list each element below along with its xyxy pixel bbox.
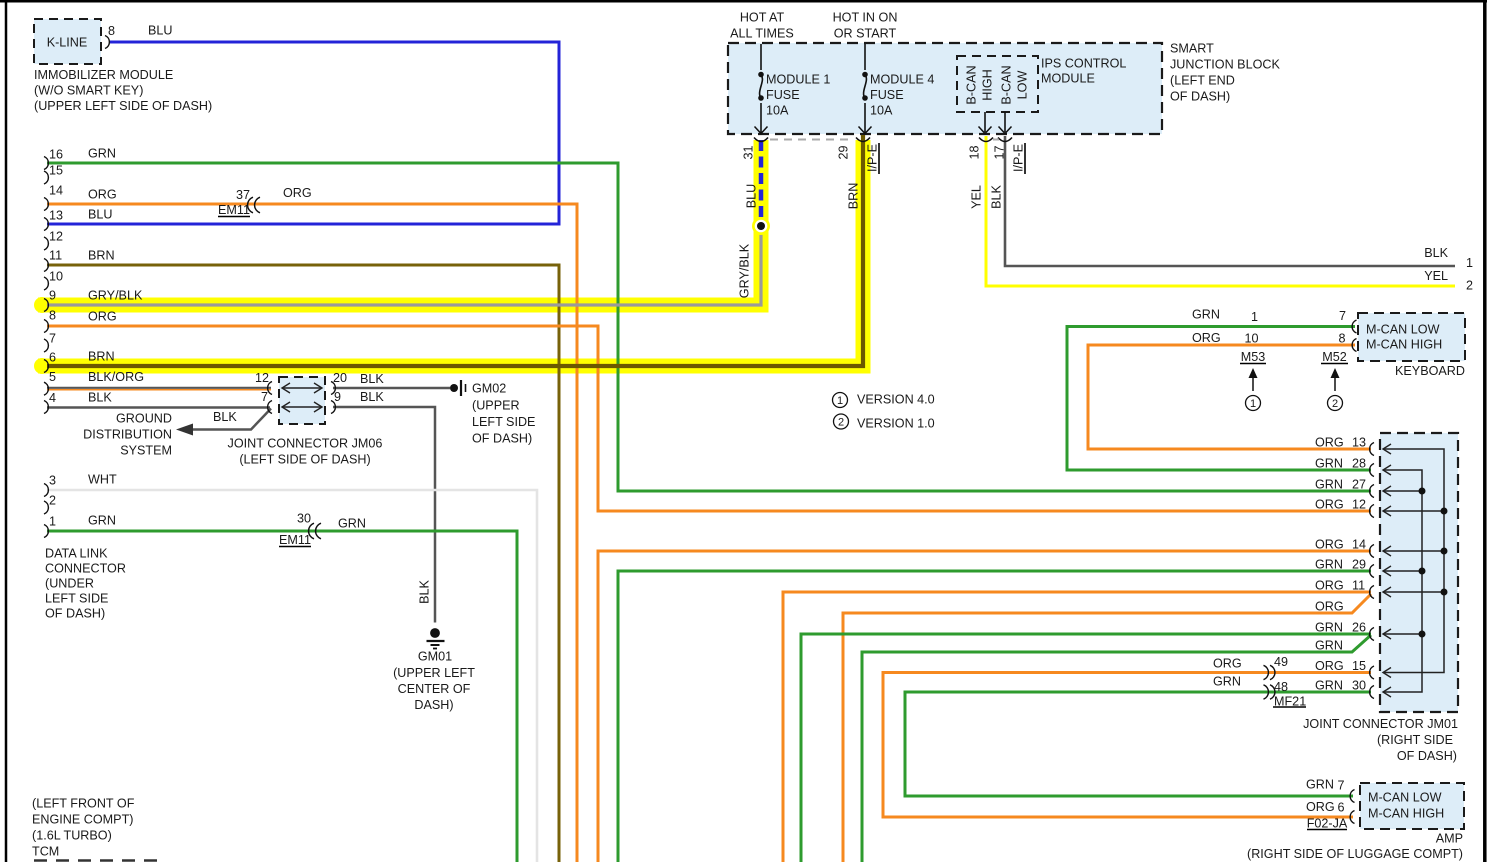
svg-text:31: 31 [741,145,755,159]
svg-text:(RIGHT SIDE: (RIGHT SIDE [1377,733,1453,747]
svg-text:M-CAN LOW: M-CAN LOW [1366,322,1440,336]
svg-text:GRN: GRN [88,513,116,527]
svg-text:FUSE: FUSE [870,88,904,102]
svg-text:I/P-E: I/P-E [1011,144,1025,172]
svg-text:11: 11 [49,248,62,262]
svg-text:12: 12 [49,229,63,243]
svg-text:6: 6 [1337,800,1344,814]
svg-text:IPS CONTROL: IPS CONTROL [1041,56,1126,70]
svg-text:BLU: BLU [148,23,173,37]
svg-text:BRN: BRN [846,183,860,210]
svg-text:K-LINE: K-LINE [47,35,88,49]
svg-text:KEYBOARD: KEYBOARD [1395,364,1465,378]
svg-text:GRN: GRN [1315,620,1343,634]
svg-text:DISTRIBUTION: DISTRIBUTION [83,427,172,441]
svg-text:(UNDER: (UNDER [45,576,94,590]
svg-text:OR START: OR START [834,26,897,40]
svg-text:BLK: BLK [1424,246,1448,260]
svg-text:(W/O SMART KEY): (W/O SMART KEY) [34,83,143,97]
svg-text:7: 7 [49,331,56,345]
svg-text:AMP: AMP [1436,831,1463,845]
svg-text:6: 6 [49,350,56,364]
svg-text:ENGINE COMPT): ENGINE COMPT) [32,812,133,826]
svg-text:ORG: ORG [1192,331,1221,345]
svg-text:OF DASH): OF DASH) [1397,749,1457,763]
svg-text:9: 9 [334,390,341,404]
svg-text:M-CAN LOW: M-CAN LOW [1368,790,1442,804]
svg-text:GRN: GRN [1315,456,1343,470]
svg-text:2: 2 [1466,278,1473,292]
svg-text:20: 20 [333,371,347,385]
svg-text:GRN: GRN [1315,557,1343,571]
svg-text:2: 2 [838,416,844,428]
svg-text:HOT AT: HOT AT [740,10,785,24]
svg-text:8: 8 [49,308,56,322]
svg-text:(LEFT END: (LEFT END [1170,73,1235,87]
svg-text:10A: 10A [766,103,789,117]
svg-text:GRN: GRN [338,516,366,530]
svg-text:12: 12 [255,371,269,385]
svg-text:7: 7 [1337,778,1344,792]
svg-text:ORG: ORG [283,186,312,200]
svg-text:15: 15 [1352,659,1366,673]
svg-text:M-CAN HIGH: M-CAN HIGH [1366,337,1442,351]
svg-text:ALL TIMES: ALL TIMES [730,26,794,40]
svg-text:ORG: ORG [1315,599,1344,613]
svg-text:MODULE 1: MODULE 1 [766,72,830,86]
svg-text:EM11: EM11 [279,533,311,547]
svg-text:ORG: ORG [1315,497,1344,511]
svg-text:FUSE: FUSE [766,88,800,102]
svg-text:DASH): DASH) [414,698,453,712]
svg-text:EM11: EM11 [218,203,250,217]
svg-text:CONNECTOR: CONNECTOR [45,561,126,575]
svg-text:JOINT CONNECTOR JM01: JOINT CONNECTOR JM01 [1303,717,1458,731]
svg-text:14: 14 [1352,537,1366,551]
svg-text:WHT: WHT [88,472,117,486]
svg-text:BLK: BLK [360,390,384,404]
svg-text:BLK: BLK [360,372,384,386]
svg-text:3: 3 [49,473,56,487]
svg-text:8: 8 [108,24,115,38]
svg-text:LOW: LOW [1015,71,1029,100]
svg-text:ORG: ORG [1315,659,1344,673]
svg-text:16: 16 [49,147,63,161]
svg-text:1: 1 [1250,398,1256,410]
svg-text:BRN: BRN [88,349,115,363]
svg-text:GRN: GRN [88,146,116,160]
svg-text:10: 10 [49,269,63,283]
svg-text:GRN: GRN [1306,777,1334,791]
svg-text:15: 15 [49,163,63,177]
svg-text:LEFT SIDE: LEFT SIDE [472,415,535,429]
svg-text:M52: M52 [1322,350,1347,364]
svg-text:GRN: GRN [1315,678,1343,692]
svg-text:VERSION 1.0: VERSION 1.0 [857,416,935,430]
svg-text:8: 8 [1338,331,1345,345]
svg-text:GRN: GRN [1315,638,1343,652]
svg-text:TCM: TCM [32,844,59,858]
svg-text:2: 2 [49,493,56,507]
svg-text:2: 2 [1332,398,1338,410]
svg-text:BRN: BRN [88,248,115,262]
svg-text:ORG: ORG [1315,537,1344,551]
svg-text:27: 27 [1352,477,1366,491]
svg-text:YEL: YEL [1424,269,1448,283]
svg-text:I/P-E: I/P-E [865,144,879,172]
svg-text:BLK: BLK [417,580,431,604]
svg-text:BLK: BLK [88,390,112,404]
svg-text:29: 29 [1352,557,1366,571]
svg-text:GRY/BLK: GRY/BLK [737,243,751,298]
svg-text:4: 4 [49,391,56,405]
svg-text:7: 7 [1339,309,1346,323]
svg-text:(RIGHT SIDE OF LUGGAGE COMPT): (RIGHT SIDE OF LUGGAGE COMPT) [1247,847,1463,861]
svg-text:HOT IN ON: HOT IN ON [833,10,898,24]
svg-text:10A: 10A [870,103,893,117]
svg-text:(UPPER: (UPPER [472,398,520,412]
svg-text:YEL: YEL [969,185,983,209]
svg-text:9: 9 [49,288,56,302]
svg-text:GRN: GRN [1315,477,1343,491]
svg-text:(1.6L TURBO): (1.6L TURBO) [32,828,112,842]
svg-text:BLU: BLU [744,184,758,209]
svg-text:GM01: GM01 [418,649,452,663]
svg-text:GROUND: GROUND [116,411,172,425]
svg-text:1: 1 [1466,256,1473,270]
svg-text:B-CAN: B-CAN [964,65,978,104]
svg-text:26: 26 [1352,620,1366,634]
svg-text:VERSION 4.0: VERSION 4.0 [857,392,935,406]
svg-text:ORG: ORG [1306,800,1335,814]
svg-text:18: 18 [967,145,981,159]
svg-text:MODULE: MODULE [1041,71,1095,85]
svg-text:1: 1 [49,514,56,528]
svg-text:HIGH: HIGH [980,69,994,100]
svg-text:SMART: SMART [1170,41,1214,55]
svg-text:BLK: BLK [213,410,237,424]
svg-text:12: 12 [1352,497,1366,511]
svg-text:GM02: GM02 [472,381,506,395]
svg-text:GRN: GRN [1192,307,1220,321]
svg-text:BLU: BLU [88,207,113,221]
svg-text:GRN: GRN [1213,675,1241,689]
svg-text:SYSTEM: SYSTEM [120,443,172,457]
svg-text:JOINT CONNECTOR JM06: JOINT CONNECTOR JM06 [228,436,383,450]
svg-text:5: 5 [49,370,56,384]
svg-text:M-CAN HIGH: M-CAN HIGH [1368,806,1444,820]
svg-text:B-CAN: B-CAN [999,65,1013,104]
svg-text:30: 30 [297,511,311,525]
svg-text:7: 7 [261,390,268,404]
svg-text:48: 48 [1274,680,1288,694]
svg-text:29: 29 [836,145,850,159]
svg-text:49: 49 [1274,655,1288,669]
svg-text:LEFT SIDE: LEFT SIDE [45,591,108,605]
svg-text:OF DASH): OF DASH) [1170,89,1230,103]
svg-text:17: 17 [992,145,1006,159]
svg-text:BLK: BLK [989,185,1003,209]
svg-text:MODULE 4: MODULE 4 [870,72,934,86]
svg-text:ORG: ORG [1315,578,1344,592]
svg-text:ORG: ORG [1213,656,1242,670]
svg-text:OF DASH): OF DASH) [472,431,532,445]
svg-text:IMMOBILIZER MODULE: IMMOBILIZER MODULE [34,68,173,82]
svg-text:F02-JA: F02-JA [1307,816,1348,830]
svg-text:(LEFT FRONT OF: (LEFT FRONT OF [32,796,135,810]
svg-text:14: 14 [49,183,63,197]
svg-text:(LEFT SIDE OF DASH): (LEFT SIDE OF DASH) [239,452,370,466]
svg-text:37: 37 [236,188,250,202]
svg-text:(UPPER LEFT SIDE OF DASH): (UPPER LEFT SIDE OF DASH) [34,99,212,113]
svg-text:ORG: ORG [1315,435,1344,449]
svg-text:(UPPER LEFT: (UPPER LEFT [393,666,475,680]
svg-text:30: 30 [1352,678,1366,692]
svg-text:1: 1 [1251,310,1258,324]
svg-text:13: 13 [49,208,63,222]
svg-text:13: 13 [1352,435,1366,449]
svg-text:1: 1 [837,395,843,407]
svg-text:JUNCTION BLOCK: JUNCTION BLOCK [1170,57,1280,71]
svg-text:M53: M53 [1241,350,1266,364]
svg-text:11: 11 [1352,578,1365,592]
svg-text:DATA LINK: DATA LINK [45,546,108,560]
svg-text:ORG: ORG [88,187,117,201]
svg-text:28: 28 [1352,456,1366,470]
svg-text:ORG: ORG [88,309,117,323]
svg-text:OF DASH): OF DASH) [45,606,105,620]
svg-text:BLK/ORG: BLK/ORG [88,370,144,384]
svg-text:GRY/BLK: GRY/BLK [88,288,143,302]
svg-text:CENTER OF: CENTER OF [398,682,471,696]
svg-text:10: 10 [1244,331,1258,345]
